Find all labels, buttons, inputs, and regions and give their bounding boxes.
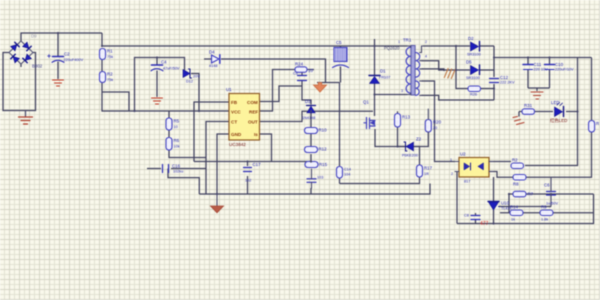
wire C10 stub (549, 58, 551, 89)
svg-text:D12: D12 (186, 80, 193, 84)
resistor R20 aux (425, 120, 431, 133)
svg-text:D1: D1 (380, 69, 386, 74)
wire FB row y161.5 (194, 161, 311, 163)
svg-text:2: 2 (425, 40, 427, 44)
transistor Q1 MOSFET (364, 118, 375, 129)
resistor R right rail (589, 121, 595, 133)
wire FB pin (194, 102, 229, 162)
wire R18 column (339, 83, 341, 184)
svg-text:75k: 75k (107, 55, 113, 59)
transformer T1 (406, 46, 423, 96)
svg-text:C10: C10 (555, 62, 564, 67)
wire D5 cathode (480, 69, 494, 71)
wire D12 to right (191, 74, 199, 112)
wire opto pin4 down (456, 172, 458, 224)
optocoupler U2 (455, 158, 493, 178)
wire center tap row y100 (422, 95, 495, 100)
svg-text:R26: R26 (470, 93, 477, 97)
svg-text:1R: 1R (424, 172, 429, 176)
wire R14 R9 row y214 (500, 212, 594, 214)
IC U1 UC3842 (229, 94, 260, 141)
resistor R15 (305, 162, 318, 168)
earth ground LED (513, 117, 524, 125)
ground main (211, 194, 224, 213)
svg-text:1.8k: 1.8k (541, 218, 548, 222)
LED1 (555, 103, 564, 117)
svg-text:102: 102 (245, 179, 251, 183)
svg-text:2: 2 (451, 172, 453, 176)
wire R24 right and C6ref cap (302, 70, 314, 105)
earth ground output caps (531, 92, 543, 99)
svg-text:P6KE200: P6KE200 (402, 154, 418, 158)
wire output rail y57 (494, 57, 592, 59)
svg-text:1: 1 (450, 158, 452, 162)
svg-text:10: 10 (308, 68, 313, 73)
wire x206 junction (205, 158, 207, 195)
wire GND pin (217, 134, 229, 194)
wire output cap ground row (528, 88, 550, 91)
svg-text:47uF/50V: 47uF/50V (163, 67, 180, 71)
svg-text:U1: U1 (226, 87, 232, 92)
resistor R31 LED (522, 109, 535, 115)
svg-text:D2: D2 (468, 36, 474, 41)
svg-text:R2: R2 (107, 72, 113, 77)
wire C5 stems (340, 46, 342, 83)
capacitor C14 (307, 169, 316, 188)
capacitor C11 (523, 65, 533, 70)
wire R26 right stub (481, 88, 494, 90)
svg-text:817: 817 (464, 180, 470, 184)
wire TL431 ref row right end (549, 206, 551, 208)
wire divider row y194 (509, 193, 594, 195)
svg-text:R2: R2 (512, 158, 518, 163)
svg-text:10: 10 (174, 125, 178, 129)
svg-text:LED: LED (551, 100, 560, 105)
svg-text:C6: C6 (293, 72, 298, 76)
svg-text:D9: D9 (31, 34, 37, 39)
svg-text:220uF400V: 220uF400V (64, 58, 84, 62)
capacitor C13 (244, 168, 252, 172)
wire drain vertical with D1 (374, 39, 376, 116)
wire ground rail y194 (199, 184, 430, 195)
svg-text:1u/50V: 1u/50V (546, 202, 559, 206)
svg-text:1k: 1k (511, 218, 515, 222)
wire bottom rail y223.5 (457, 194, 594, 224)
svg-text:GND: GND (231, 132, 242, 137)
resistor R12 (305, 147, 318, 153)
wire right rail A (525, 58, 578, 166)
svg-text:R6: R6 (174, 138, 180, 143)
wire shield stub (422, 69, 445, 71)
resistor R14 (510, 210, 523, 216)
diode D5 (471, 65, 480, 75)
wire divider left end down (508, 194, 510, 213)
svg-text:SR3100: SR3100 (466, 76, 480, 80)
svg-text:D5: D5 (466, 60, 472, 65)
ground C4 (152, 98, 163, 104)
svg-text:75k: 75k (107, 78, 113, 82)
wire Q1 source down (375, 129, 428, 147)
svg-text:FR107: FR107 (379, 76, 390, 80)
svg-text:PQ2620: PQ2620 (384, 46, 400, 51)
wire C4 stem (156, 58, 158, 98)
svg-text:C6: C6 (544, 183, 550, 188)
svg-text:D4: D4 (209, 50, 215, 55)
TL431 U3 (488, 202, 500, 211)
resistor R26 (468, 86, 481, 92)
capacitor C4 electrolytic (151, 65, 163, 71)
wire VCC rail y111 (102, 59, 229, 111)
wire transformer pin2 out (423, 45, 470, 47)
wire opto emitter down TL431 (493, 177, 495, 224)
svg-text:R8: R8 (513, 182, 519, 187)
wire AC loop left (3, 53, 36, 111)
svg-text:B802: B802 (32, 64, 43, 69)
svg-text:222 2KV: 222 2KV (500, 81, 515, 85)
wire top-left from bridge top (21, 33, 102, 41)
wire opto pin3 row (489, 162, 513, 178)
resistor R6 (166, 138, 172, 151)
resistor R1 (100, 49, 106, 60)
wire Is pin (259, 134, 272, 162)
svg-text:C2: C2 (64, 52, 70, 57)
svg-text:FB: FB (231, 100, 238, 105)
svg-text:1: 1 (398, 40, 400, 44)
resistor R24 (295, 67, 307, 73)
wire output node vertical (493, 46, 495, 100)
earth ground AC (19, 111, 33, 125)
wire R1-R2 jog rectangle (102, 92, 129, 111)
diode D4 (212, 55, 220, 63)
svg-text:U2: U2 (460, 152, 466, 157)
svg-text:Is: Is (254, 132, 258, 137)
chassis ground shield (444, 69, 455, 79)
capacitor C5 snubber electrolytic (333, 48, 349, 68)
diode D1 (369, 76, 380, 84)
svg-text:R14: R14 (510, 205, 519, 210)
wire LED row (533, 111, 578, 113)
resistor R10 (305, 128, 318, 134)
capacitor C12 (490, 79, 499, 83)
svg-text:C4: C4 (161, 60, 167, 65)
wire main HT bus y46 (102, 33, 408, 46)
svg-text:4: 4 (425, 55, 427, 59)
resistor R9 (540, 210, 553, 216)
resistor R2fb (511, 163, 524, 169)
capacitor C6 ref (298, 76, 307, 81)
zener Z2 (404, 142, 414, 151)
ground C2 (53, 80, 64, 86)
svg-text:TR1: TR1 (403, 38, 412, 43)
svg-text:C5: C5 (336, 40, 342, 45)
svg-text:R5: R5 (174, 119, 180, 124)
svg-text:COM: COM (247, 100, 258, 105)
svg-text:10k: 10k (174, 145, 180, 149)
svg-text:R12: R12 (319, 147, 328, 152)
wire C13 stubs (247, 162, 249, 195)
svg-text:OUT: OUT (248, 120, 258, 125)
wire D2 D5 anode link (456, 46, 468, 89)
svg-text:R9: R9 (541, 205, 547, 210)
svg-text:Z2: Z2 (416, 137, 422, 142)
wire CT pin (206, 122, 229, 158)
resistor R2 (100, 72, 106, 83)
svg-text:C14: C14 (344, 168, 351, 172)
svg-text:4148: 4148 (209, 64, 217, 68)
svg-text:R17: R17 (424, 166, 433, 171)
resistor R7 (513, 191, 526, 197)
svg-text:VCC: VCC (231, 109, 241, 114)
wire C8 cap stub (475, 213, 477, 224)
svg-text:R: R (596, 121, 599, 126)
wire D2 cathode to bus (480, 45, 494, 47)
svg-text:20V: 20V (193, 75, 200, 79)
wire primary bottom to drain (375, 94, 408, 96)
wire D4 row y59 (204, 59, 340, 83)
power ground arrow snubber (313, 83, 326, 93)
svg-text:R13: R13 (402, 115, 411, 120)
resistor R13 (395, 114, 401, 128)
svg-text:104: 104 (344, 173, 350, 177)
svg-text:C11: C11 (534, 62, 542, 67)
resistor R17 (417, 165, 423, 177)
diode D3 (307, 106, 316, 113)
zener D12 (183, 69, 192, 78)
wire C11 stub (527, 58, 529, 89)
svg-text:102ku: 102ku (173, 170, 183, 174)
wire R5 R6 column stems (169, 111, 206, 158)
wire REF pin up to R24 (259, 70, 295, 112)
svg-text:R10: R10 (319, 128, 328, 133)
svg-text:C12: C12 (500, 75, 509, 80)
svg-text:R24: R24 (295, 62, 304, 67)
svg-text:R15: R15 (319, 162, 328, 167)
svg-text:R31: R31 (524, 103, 533, 108)
wire COM pin loop (259, 86, 302, 102)
svg-text:D3: D3 (305, 99, 311, 104)
svg-text:R7: R7 (528, 192, 534, 197)
resistor R18 (337, 167, 343, 179)
svg-text:20: 20 (433, 126, 437, 130)
resistor R8 (513, 175, 526, 181)
svg-text:Q1: Q1 (363, 100, 369, 105)
svg-text:REF: REF (249, 109, 258, 114)
svg-text:C17: C17 (253, 162, 262, 167)
wire x199 corner up (168, 169, 199, 195)
wire transformer mid pin jog (422, 61, 471, 70)
wire right rail B (526, 58, 592, 178)
svg-text:UC3842: UC3842 (229, 142, 246, 147)
svg-text:3: 3 (401, 89, 403, 93)
svg-text:红色LED: 红色LED (550, 117, 567, 123)
wire snubber ground stub (319, 83, 321, 85)
svg-text:477: 477 (480, 221, 489, 227)
svg-text:R1: R1 (107, 49, 113, 54)
svg-text:SR3100: SR3100 (467, 53, 481, 57)
wire TL431 ref row (500, 206, 552, 208)
wire zener stubs (398, 146, 420, 148)
svg-text:CT: CT (231, 120, 237, 125)
svg-text:103: 103 (317, 176, 323, 180)
wire C2 stem (57, 33, 59, 79)
wire aux pin to opto column (422, 81, 456, 162)
wire C4 branch (135, 58, 185, 112)
wire LED resistor left stub (519, 112, 522, 117)
wire D3 column (310, 113, 312, 194)
svg-text:U10: U10 (501, 201, 510, 206)
wire OUT pin to gate (259, 111, 373, 121)
svg-text:1N4148: 1N4148 (302, 116, 315, 120)
svg-text:C8: C8 (464, 214, 469, 218)
bridge rectifier B1 (9, 41, 33, 64)
capacitor C10 (545, 65, 555, 70)
capacitor C2 (48, 55, 65, 63)
svg-text:R20: R20 (433, 120, 442, 125)
resistor R5 (166, 118, 172, 130)
capacitor C6 fb (547, 177, 556, 206)
svg-text:C16: C16 (172, 164, 181, 169)
wire sense R column (397, 111, 399, 146)
capacitor C8 (471, 216, 480, 220)
diode D2 (471, 42, 480, 52)
svg-text:220 10V: 220 10V (534, 68, 549, 72)
wire bridge bottom stub (20, 64, 22, 67)
svg-text:220uF/10V: 220uF/10V (555, 68, 574, 72)
capacitor C16 (163, 165, 169, 173)
wire C16 row (147, 168, 206, 170)
wire R17 column (340, 147, 420, 184)
